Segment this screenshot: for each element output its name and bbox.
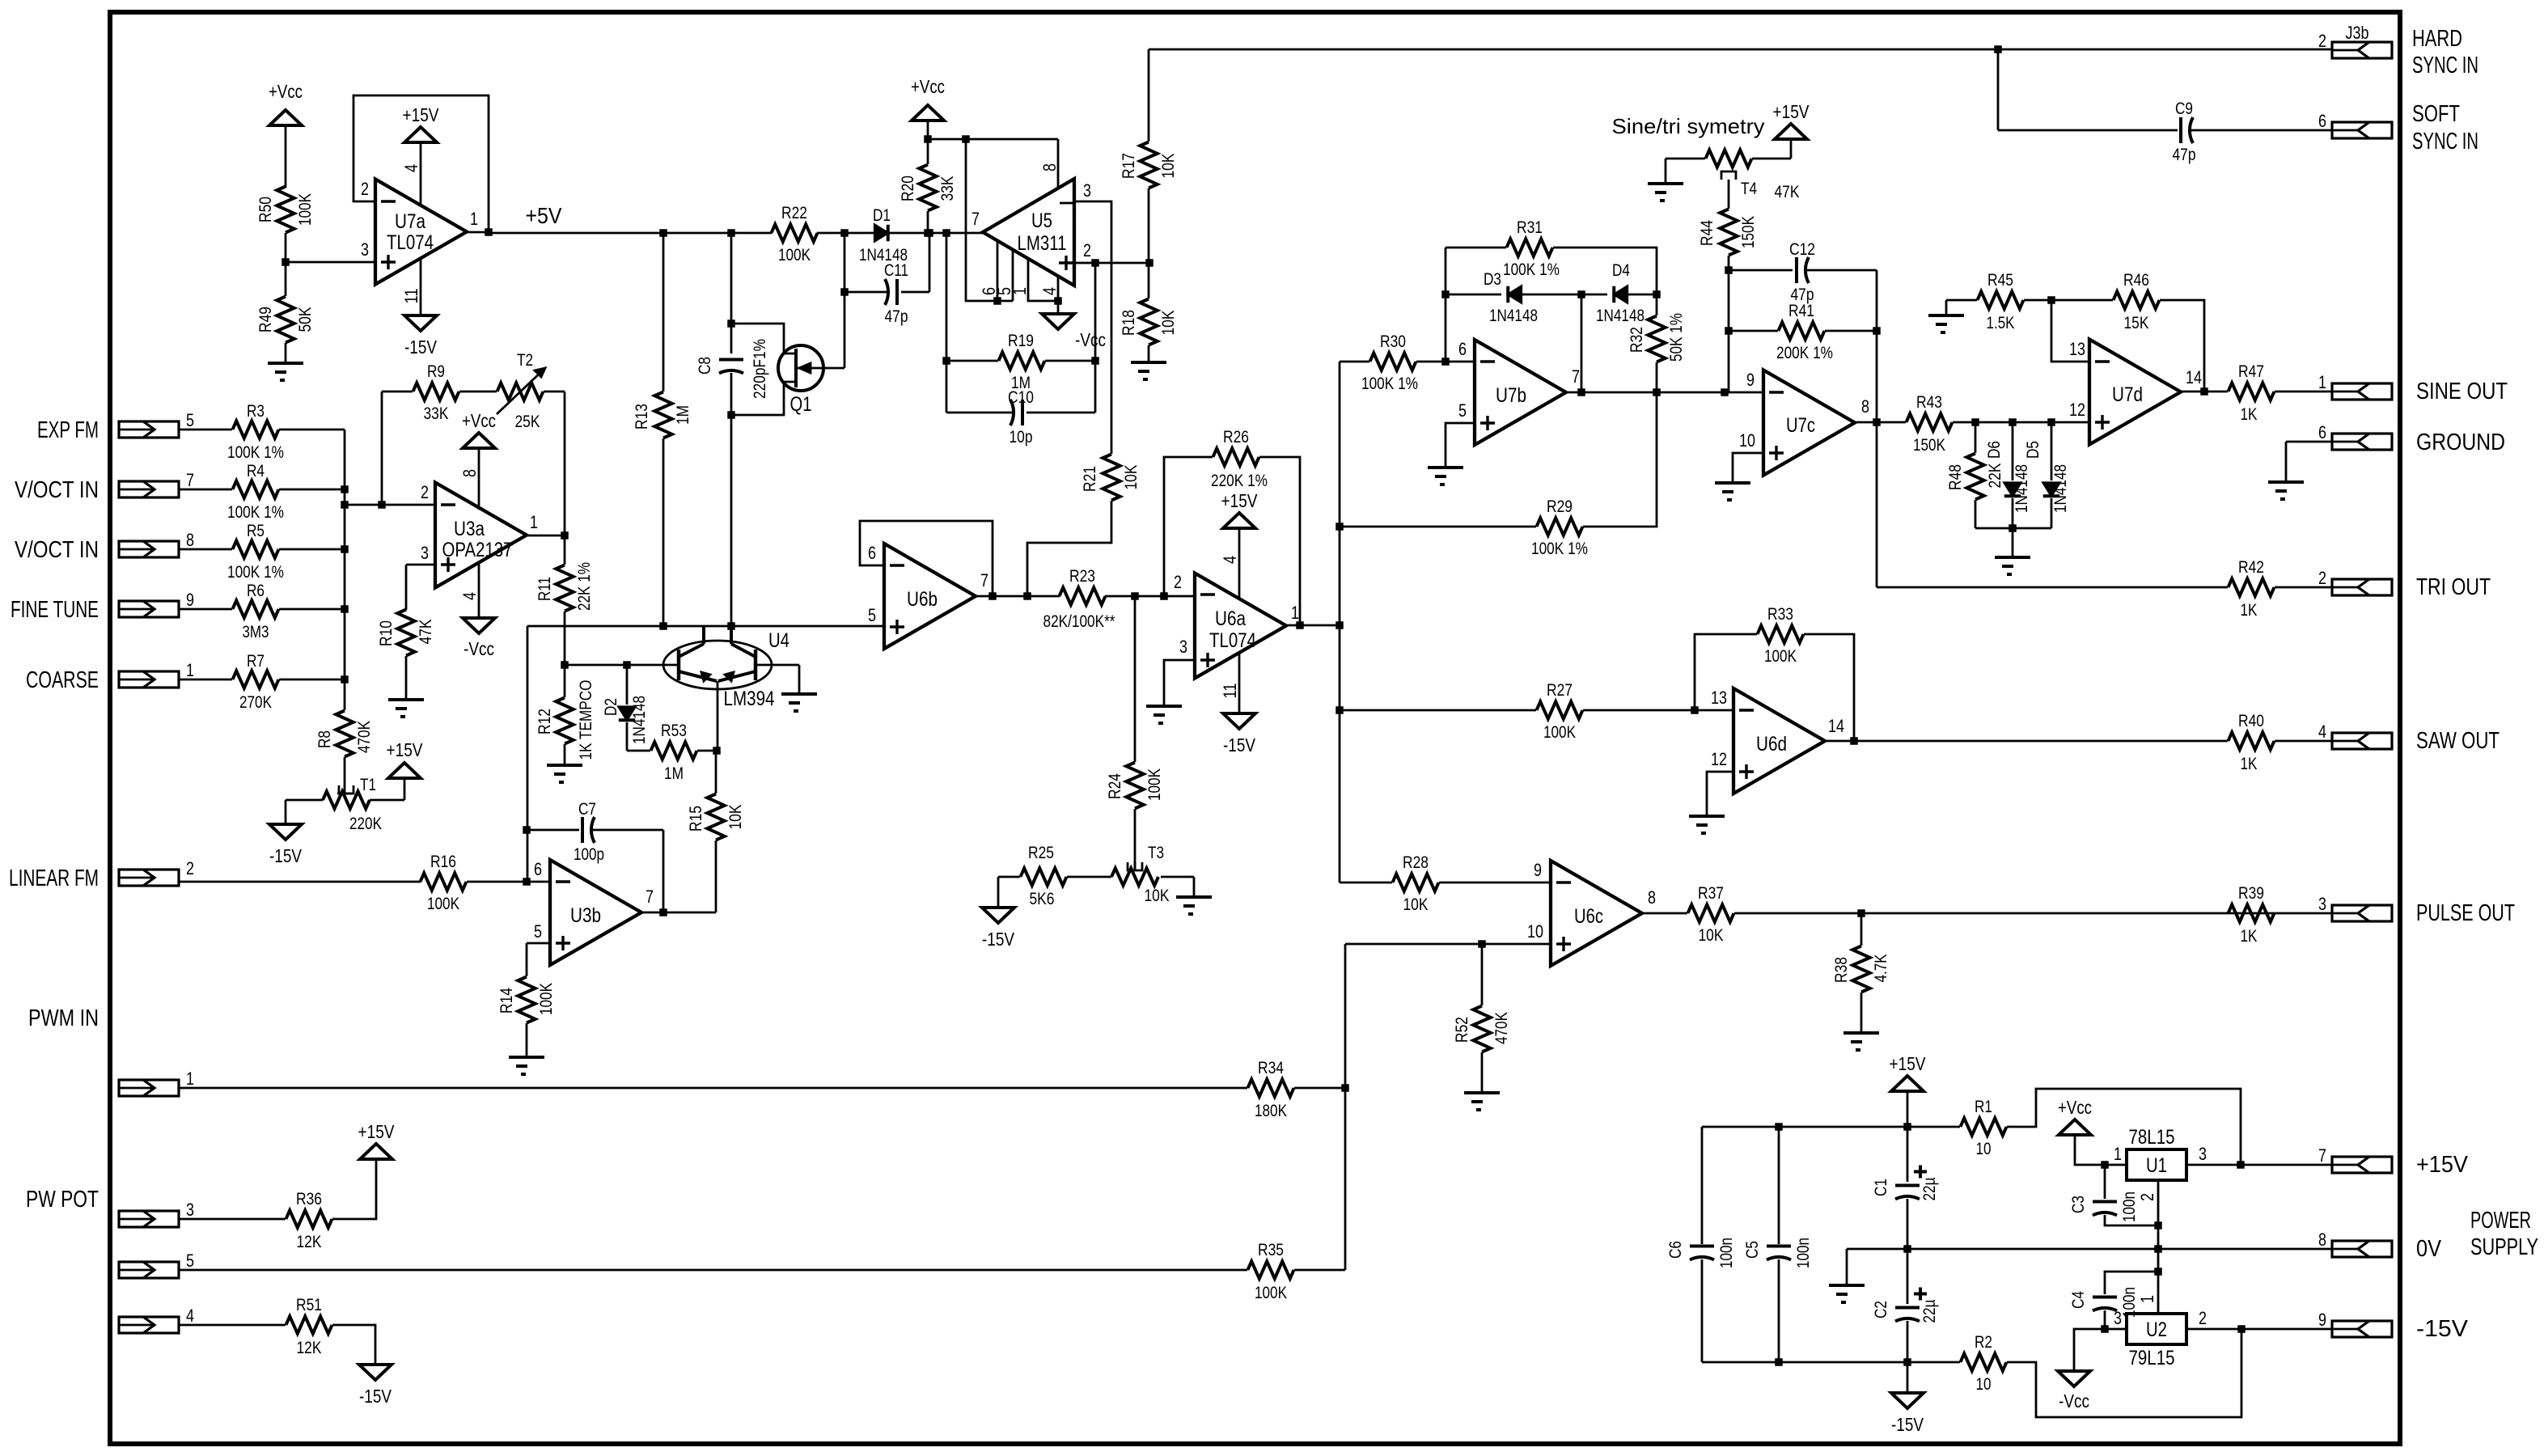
op-amp U7d	[2089, 340, 2181, 445]
connector right pin 6 at 161	[2318, 111, 2392, 138]
svg-text:7: 7	[646, 887, 654, 907]
diode D4 1N4148	[1596, 261, 1644, 325]
wire R31 up	[1446, 248, 1506, 362]
node R26 out	[1296, 621, 1304, 629]
wire U3a pin3	[406, 565, 435, 610]
wire U6c pin10	[1345, 944, 1551, 1270]
svg-text:5: 5	[186, 1251, 194, 1271]
pin 5 label U6b	[868, 605, 876, 625]
node loop top	[962, 135, 970, 143]
svg-text:R30: R30	[1380, 332, 1406, 351]
svg-text:J3b: J3b	[2346, 23, 2369, 43]
svg-text:-15V: -15V	[2416, 1316, 2469, 1342]
wire R43 right	[1953, 421, 2089, 424]
svg-text:SINE OUT: SINE OUT	[2416, 379, 2508, 404]
node R21 tap	[1023, 592, 1031, 600]
wire U7c pin10	[1733, 453, 1763, 483]
wire T1 left to -15V	[286, 800, 323, 824]
ground U6a pin3	[1146, 706, 1182, 723]
node +Vcc rail	[924, 135, 932, 143]
svg-text:R28: R28	[1403, 853, 1429, 872]
svg-text:+Vcc: +Vcc	[462, 410, 496, 431]
svg-text:3: 3	[2199, 1144, 2207, 1164]
resistor R28	[1393, 853, 1439, 914]
svg-text:6: 6	[2318, 111, 2326, 131]
svg-text:R29: R29	[1547, 497, 1573, 516]
label FINE TUNE	[11, 597, 99, 623]
wire 0V gnd stub	[1846, 1249, 1848, 1285]
wire R19 right	[1094, 263, 1097, 413]
connector right pin 1 at 484	[2318, 372, 2392, 400]
label SAW OUT	[2416, 728, 2500, 754]
wire R23 right	[1105, 595, 1195, 598]
wire T3 wiper	[1134, 862, 1137, 870]
svg-text:R19: R19	[1008, 332, 1034, 350]
ground under R14	[509, 1057, 544, 1074]
wire GROUND connector	[2286, 442, 2332, 482]
resistor R6	[233, 582, 279, 641]
node U1 gnd	[2154, 1245, 2162, 1253]
wire bus to R8	[344, 679, 346, 687]
pin 6 label U5	[979, 287, 999, 295]
svg-text:LM311: LM311	[1018, 232, 1067, 255]
svg-text:1N4148: 1N4148	[2013, 464, 2031, 513]
svg-text:3: 3	[2318, 894, 2326, 914]
capacitor C10 10p	[946, 388, 1095, 447]
wire U3b pin5	[527, 943, 550, 976]
wire U7a pin3	[286, 261, 375, 264]
node C1 top	[1903, 1123, 1911, 1131]
svg-text:9: 9	[1746, 370, 1755, 390]
svg-text:R25: R25	[1028, 844, 1054, 862]
svg-text:7: 7	[186, 470, 194, 490]
op-amp U3b	[550, 860, 641, 965]
regulator U2 79L15	[2127, 1314, 2186, 1369]
node D1 anode	[840, 229, 849, 237]
node R46 left	[2047, 296, 2055, 304]
wire C11 right	[901, 233, 929, 292]
capacitor C5 100n	[1743, 1127, 1813, 1362]
node R34 junction	[1341, 1084, 1349, 1092]
node sync branch	[1994, 45, 2002, 53]
svg-text:10: 10	[1527, 921, 1543, 942]
node pin4	[1054, 297, 1062, 305]
connector PW POT pin 4	[119, 1306, 194, 1333]
svg-text:1.5K: 1.5K	[1987, 314, 2015, 332]
svg-text:D3: D3	[1484, 270, 1501, 289]
svg-text:5: 5	[186, 410, 194, 430]
label V/OCT IN	[15, 537, 99, 563]
svg-text:R3: R3	[247, 402, 265, 421]
node C4 bottom	[2101, 1325, 2109, 1333]
svg-text:SYNC IN: SYNC IN	[2412, 129, 2478, 154]
resistor R3	[227, 402, 284, 462]
pin 2 label U2	[2199, 1308, 2207, 1328]
svg-text:Q1: Q1	[790, 393, 812, 416]
wire +5V net	[489, 232, 772, 235]
resistor R51	[179, 1296, 375, 1365]
pin 7 label U6b	[980, 570, 988, 590]
resistor R15	[687, 751, 745, 912]
svg-text:PWM IN: PWM IN	[28, 1005, 99, 1031]
wire U2 out	[2186, 1328, 2332, 1331]
wire U5 pin3	[1074, 201, 1111, 430]
wire U6b feedback	[860, 521, 993, 596]
wire R50 to node	[285, 233, 287, 296]
node D5 top	[2047, 418, 2055, 426]
power -Vcc U5	[1042, 314, 1106, 350]
pin 10 label U6c	[1527, 921, 1543, 942]
svg-text:D6: D6	[1985, 441, 2004, 459]
ground under R38	[1843, 1033, 1879, 1050]
svg-text:R50: R50	[256, 197, 275, 222]
label -Vcc U5b	[0, 0, 1, 1]
node U7a out	[485, 228, 493, 236]
svg-text:-Vcc: -Vcc	[464, 638, 494, 659]
node R13 bottom	[659, 622, 667, 630]
svg-text:TL074: TL074	[1209, 629, 1256, 652]
svg-text:R6: R6	[247, 582, 265, 600]
wire D4 right	[1628, 294, 1657, 296]
svg-text:47K: 47K	[417, 620, 435, 645]
svg-text:100K: 100K	[1543, 723, 1576, 742]
label +5V	[526, 203, 562, 228]
power +15V above T1	[387, 739, 424, 778]
label SINE OUT	[2416, 379, 2508, 404]
node R44 line	[1721, 388, 1729, 396]
svg-text:12K: 12K	[297, 1233, 322, 1251]
svg-text:U6a: U6a	[1215, 607, 1246, 630]
wire soft sync	[1998, 49, 2178, 130]
resistor R19 1M	[946, 332, 1095, 392]
svg-text:10K: 10K	[1145, 887, 1170, 905]
svg-text:5: 5	[1458, 400, 1467, 421]
wire R6 input	[179, 608, 345, 611]
wire R30 lead	[1340, 361, 1369, 363]
ground under T3	[1176, 897, 1212, 914]
transistor Q1 jfet	[778, 345, 844, 416]
svg-text:10: 10	[1976, 1375, 1992, 1394]
pin 1 label U2	[2137, 1295, 2157, 1303]
svg-text:R40: R40	[2238, 712, 2264, 730]
resistor R38	[1832, 913, 1890, 1033]
svg-text:0V: 0V	[2416, 1236, 2442, 1262]
svg-text:6: 6	[1458, 339, 1467, 359]
wire T4 wiper to R44	[1728, 180, 1730, 209]
resistor R13	[633, 233, 692, 626]
pin 4 label U3a	[459, 592, 480, 600]
node U7a pin3	[281, 258, 290, 266]
pin 8 label U6c	[1648, 887, 1656, 908]
ground U7c pin10	[1715, 483, 1750, 500]
op-amp U6d	[1733, 688, 1825, 794]
svg-text:C11: C11	[884, 261, 908, 280]
wire R42 right	[2275, 586, 2332, 589]
svg-text:+Vcc: +Vcc	[269, 81, 303, 102]
label LINEAR FM	[9, 866, 99, 891]
svg-text:R14: R14	[497, 988, 516, 1014]
pin 7 label U7b	[1572, 366, 1580, 387]
svg-text:5: 5	[868, 605, 876, 625]
svg-text:R47: R47	[2238, 362, 2264, 381]
node R41 left	[1725, 327, 1733, 335]
svg-text:100K: 100K	[427, 895, 459, 913]
svg-text:100K 1%: 100K 1%	[1531, 540, 1588, 558]
resistor R47	[2229, 362, 2275, 424]
node Q1 bottom line	[727, 622, 735, 630]
pin 7 label U3b	[646, 887, 654, 907]
node R24 tap	[1131, 592, 1139, 600]
svg-text:1M: 1M	[664, 764, 684, 783]
power +15V T4	[1773, 101, 1810, 139]
node C8 branch	[727, 229, 735, 237]
power +Vcc above R50	[269, 81, 303, 188]
wire R7 input	[179, 679, 345, 681]
connector right pin 3 at 1129	[2318, 894, 2392, 921]
svg-text:10: 10	[1976, 1140, 1992, 1158]
svg-text:7: 7	[980, 570, 988, 590]
svg-text:2: 2	[1174, 572, 1182, 592]
svg-text:8: 8	[459, 469, 480, 477]
node D3D4 bottom	[1577, 388, 1585, 396]
svg-text:R10: R10	[377, 620, 396, 646]
ground 0V	[1829, 1285, 1865, 1302]
ground under R18	[1131, 362, 1166, 379]
node pin6	[993, 297, 1001, 305]
svg-text:GROUND: GROUND	[2416, 430, 2505, 455]
svg-text:R43: R43	[1916, 393, 1942, 412]
wire U1 out	[2186, 1164, 2332, 1166]
svg-text:R37: R37	[1698, 884, 1724, 903]
svg-text:+15V: +15V	[1773, 101, 1810, 122]
pin 9 label U6c	[1534, 860, 1542, 880]
wire U7b out	[1566, 392, 1762, 394]
wire U5 pin8	[1057, 139, 1060, 188]
pin 3 label U6a	[1179, 637, 1187, 657]
resistor R53 1M	[627, 722, 717, 783]
svg-text:200K 1%: 200K 1%	[1776, 344, 1833, 362]
diode D6 1N4148	[1985, 422, 2031, 528]
resistor R14	[497, 977, 556, 1058]
node U2 out	[2237, 1325, 2246, 1333]
svg-text:+5V: +5V	[526, 203, 562, 228]
resistor R1	[1961, 1089, 2241, 1165]
label Sine/tri symetry	[1612, 114, 1765, 138]
svg-text:R42: R42	[2238, 558, 2264, 577]
node R7 junction	[341, 675, 349, 684]
connector right pin 2 at 726	[2318, 568, 2392, 595]
svg-text:+Vcc: +Vcc	[911, 76, 945, 97]
svg-text:5: 5	[534, 921, 542, 942]
op-amp U6a TL074	[1195, 574, 1286, 679]
node R48 top	[1971, 418, 1979, 426]
wire R34 right	[1294, 1087, 1345, 1090]
node C8 top	[727, 320, 735, 328]
pin 9 label U7c	[1746, 370, 1755, 390]
power +15V U7a pin4	[403, 104, 440, 205]
power -Vcc U3a pin4	[463, 562, 495, 659]
label HARD SYNC IN	[2412, 26, 2478, 78]
pin 14 label U7d	[2186, 367, 2202, 387]
svg-text:R46: R46	[2123, 271, 2149, 290]
svg-text:U4: U4	[768, 629, 789, 652]
svg-text:-15V: -15V	[1891, 1414, 1924, 1435]
svg-text:D5: D5	[2024, 441, 2042, 459]
power +Vcc U3a pin8	[462, 410, 496, 510]
svg-text:7: 7	[971, 209, 980, 229]
wire soft sync right	[2191, 129, 2332, 132]
svg-text:1N4148: 1N4148	[1596, 307, 1644, 325]
trimmer T1	[323, 776, 382, 833]
node U1 out	[2237, 1161, 2245, 1169]
wire U1 pin2	[2157, 1180, 2160, 1249]
svg-text:13: 13	[1711, 688, 1727, 708]
op-amp U6b	[884, 544, 976, 649]
wire U6a pin3	[1164, 660, 1195, 706]
capacitor C9 47p	[2173, 99, 2196, 164]
resistor R39	[2229, 884, 2275, 946]
pin 2 label U3a	[421, 482, 429, 502]
pin 13 label U6d	[1711, 688, 1727, 708]
label POWER SUPPLY	[2470, 1208, 2538, 1260]
wire T2 to out	[544, 392, 565, 535]
svg-text:14: 14	[2186, 367, 2202, 387]
capacitor C12 47p	[1729, 240, 1877, 304]
svg-text:1: 1	[186, 660, 194, 680]
svg-text:4: 4	[1039, 287, 1060, 295]
label V/OCT IN	[15, 477, 99, 503]
pin 3 label U5	[1083, 180, 1091, 201]
pin 1 label U7a	[470, 209, 478, 229]
svg-text:R53: R53	[661, 722, 687, 740]
label SOFT SYNC IN	[2412, 101, 2478, 154]
svg-text:79L15: 79L15	[2129, 1347, 2175, 1369]
node pin6 U7b	[1441, 358, 1450, 366]
svg-text:Sine/tri symetry: Sine/tri symetry	[1612, 114, 1765, 138]
svg-text:T1: T1	[360, 776, 376, 794]
wire U2 pin3	[2074, 1329, 2127, 1371]
pin 4 label U6a	[1220, 556, 1240, 564]
svg-text:10K: 10K	[1122, 465, 1141, 490]
node R4 junction	[341, 485, 349, 493]
wire U3a out	[526, 535, 565, 537]
svg-text:1K: 1K	[2241, 601, 2258, 620]
svg-text:U3b: U3b	[570, 904, 601, 927]
power -15V under T1	[269, 824, 303, 866]
svg-text:R2: R2	[1975, 1333, 1992, 1352]
node C3 top	[2101, 1161, 2109, 1169]
resistor R37	[1688, 884, 1734, 945]
capacitor C6 100n	[1666, 1127, 1736, 1362]
node R6 junction	[341, 605, 349, 613]
svg-text:6: 6	[534, 859, 542, 879]
label COARSE	[26, 667, 99, 693]
svg-text:HARD: HARD	[2412, 26, 2462, 52]
wire U7a out	[467, 231, 489, 234]
svg-text:3: 3	[186, 1200, 194, 1220]
wire U7b pin5	[1446, 423, 1475, 468]
node bus R27	[1335, 706, 1344, 714]
svg-text:C8: C8	[696, 357, 714, 375]
pin 4 label U7a	[401, 164, 421, 172]
svg-text:R20: R20	[899, 176, 917, 201]
svg-text:8: 8	[1861, 396, 1869, 417]
svg-text:D4: D4	[1612, 261, 1630, 280]
node D3 D4	[1577, 290, 1585, 298]
svg-text:R5: R5	[247, 522, 265, 540]
svg-text:+15V: +15V	[1890, 1053, 1927, 1074]
svg-text:8: 8	[1648, 887, 1656, 908]
svg-text:R44: R44	[1698, 220, 1716, 246]
svg-text:1M: 1M	[674, 405, 692, 425]
connector FINE TUNE pin 9	[119, 590, 194, 617]
ground U6d pin12	[1689, 816, 1725, 833]
svg-text:C2: C2	[1872, 1301, 1890, 1318]
connector PW POT pin 5	[119, 1251, 194, 1278]
svg-text:LINEAR FM: LINEAR FM	[9, 866, 99, 891]
node C1 bottom	[1903, 1245, 1911, 1253]
power -Vcc U2	[2058, 1371, 2090, 1412]
wire Q1 gate	[844, 292, 846, 368]
svg-text:+15V: +15V	[403, 104, 440, 125]
node C12 left	[1725, 266, 1733, 274]
wire PW pot line	[179, 1269, 1247, 1272]
trimmer T2 25K	[497, 351, 545, 431]
svg-text:R9: R9	[427, 362, 445, 381]
svg-text:11: 11	[401, 289, 421, 304]
pin 14 label U6d	[1828, 716, 1844, 736]
svg-text:T3: T3	[1148, 844, 1164, 862]
connector right pin 6 at 546	[2318, 422, 2392, 450]
power -15V R51	[359, 1365, 392, 1407]
resistor R40	[2229, 712, 2275, 773]
pin 3 label U3a	[421, 543, 429, 563]
svg-text:10: 10	[1739, 430, 1755, 451]
svg-text:100p: 100p	[574, 845, 604, 864]
svg-text:SUPPLY: SUPPLY	[2470, 1234, 2538, 1260]
svg-text:C9: C9	[2175, 99, 2193, 118]
power +Vcc above R20	[911, 76, 945, 139]
svg-text:9: 9	[2318, 1310, 2326, 1330]
svg-text:1K: 1K	[2241, 755, 2258, 773]
node R5 junction	[341, 545, 349, 553]
node bus R29	[1335, 523, 1344, 531]
svg-text:-15V: -15V	[269, 845, 303, 866]
wire R8 to T1 wiper	[337, 785, 352, 794]
pin 10 label U7c	[1739, 430, 1755, 451]
svg-text:100n: 100n	[2120, 1191, 2139, 1222]
svg-text:10K: 10K	[1159, 154, 1178, 179]
svg-text:C12: C12	[1789, 240, 1815, 259]
wire R19 left	[946, 233, 948, 413]
wire U5 pin5	[1012, 250, 1014, 301]
resistor R50	[256, 187, 315, 233]
node pin6 U3b	[523, 878, 531, 886]
svg-text:4: 4	[2318, 722, 2326, 742]
svg-text:100K 1%: 100K 1%	[227, 563, 284, 582]
resistor R43	[1907, 393, 1953, 455]
svg-text:D1: D1	[873, 206, 891, 225]
diode D1 1N4148	[859, 206, 908, 265]
label 0V out	[2416, 1236, 2442, 1262]
ground T4	[1648, 184, 1683, 201]
svg-text:2: 2	[186, 858, 194, 878]
svg-text:U5: U5	[1031, 210, 1052, 232]
svg-text:33K: 33K	[424, 404, 449, 423]
resistor R2	[1961, 1329, 2242, 1417]
svg-text:R11: R11	[535, 577, 554, 601]
capacitor C1 22u	[1872, 1127, 1939, 1249]
